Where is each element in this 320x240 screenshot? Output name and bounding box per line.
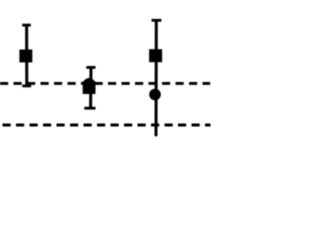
- error bar 3 top cap: [152, 19, 162, 22]
- error bar 3 square marker: [149, 49, 162, 62]
- error bar 1 square marker: [19, 50, 32, 63]
- error bar 1 bottom cap: [22, 85, 31, 88]
- error bar 3 circle marker: [149, 89, 161, 101]
- error bar 2 square marker: [83, 81, 96, 94]
- error bar 2 top cap: [86, 66, 95, 69]
- error bar 3 whisker line: [155, 21, 158, 137]
- error bar 2 circle marker: [83, 78, 95, 90]
- error bar 1 whisker line: [25, 25, 28, 87]
- error bar 2 bottom cap: [84, 107, 95, 110]
- lower dashed reference line: [3, 124, 211, 127]
- error bar 2 whisker line: [89, 68, 92, 109]
- upper dashed reference line: [0, 82, 210, 85]
- error bar 1 top cap: [22, 24, 31, 27]
